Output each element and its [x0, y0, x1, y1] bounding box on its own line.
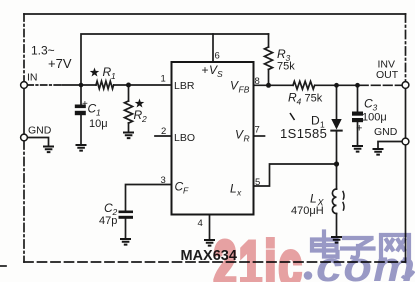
- svg-text:X: X: [317, 198, 325, 208]
- svg-text:1: 1: [111, 71, 116, 81]
- svg-text:4: 4: [198, 218, 203, 229]
- svg-text:OUT: OUT: [376, 69, 399, 81]
- svg-text:2: 2: [112, 207, 118, 217]
- svg-text:1: 1: [161, 74, 166, 85]
- svg-text:1: 1: [96, 108, 101, 118]
- svg-text:3: 3: [373, 103, 378, 113]
- svg-text:D: D: [311, 114, 320, 128]
- svg-text:+: +: [356, 123, 362, 135]
- svg-text:com: com: [316, 244, 415, 282]
- svg-text:F: F: [183, 186, 189, 196]
- svg-text:LBO: LBO: [174, 132, 195, 144]
- svg-text:75k: 75k: [305, 93, 323, 105]
- svg-text:FB: FB: [239, 85, 250, 95]
- svg-text:+7V: +7V: [48, 56, 72, 71]
- svg-text:GND: GND: [374, 126, 398, 138]
- svg-text:4: 4: [297, 97, 302, 107]
- svg-text:3: 3: [286, 53, 291, 63]
- svg-text:1: 1: [320, 120, 325, 130]
- svg-text:2: 2: [141, 114, 147, 124]
- svg-text:L: L: [230, 182, 237, 196]
- svg-text:L: L: [310, 192, 317, 206]
- svg-text:8: 8: [255, 76, 260, 87]
- svg-text:R: R: [244, 134, 250, 144]
- svg-text:3: 3: [161, 175, 166, 186]
- svg-text:2: 2: [161, 126, 166, 137]
- svg-text:5: 5: [255, 177, 260, 188]
- svg-text:+: +: [202, 63, 209, 77]
- svg-text:LBR: LBR: [174, 80, 195, 92]
- svg-text:x: x: [236, 188, 242, 198]
- svg-text:10μ: 10μ: [89, 118, 108, 130]
- svg-text:6: 6: [215, 51, 220, 62]
- svg-text:GND: GND: [28, 125, 52, 137]
- svg-text:7: 7: [255, 125, 260, 136]
- svg-text:100μ: 100μ: [362, 112, 387, 124]
- svg-text:21ic: 21ic: [214, 229, 305, 282]
- svg-text:S: S: [217, 69, 223, 79]
- svg-text:IN: IN: [27, 72, 38, 84]
